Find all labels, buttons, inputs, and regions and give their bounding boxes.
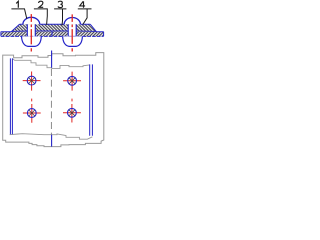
callout 3 label: [58, 1, 63, 7]
butt joint line, top strip: [51, 51, 53, 68]
inner break line, bottom (cover plate): [10, 134, 93, 140]
hole H1 centerlines: [23, 72, 41, 91]
cover plate left bevel: [11, 24, 19, 31]
callout 4 label: [80, 1, 85, 7]
centerline rivet R2: [71, 14, 73, 51]
butt joint line, bottom strip: [51, 135, 53, 147]
rivet R2 shank lines: [68, 24, 76, 36]
hole H4 centerlines: [63, 104, 81, 123]
butt gap between main plates: [51, 31, 53, 37]
callout 3 leader: [54, 9, 66, 25]
callout 2 leader: [34, 9, 47, 25]
main plate outline: [1, 32, 104, 37]
hole H3 cross mark: [29, 110, 35, 116]
cover plate right edge (double line): [90, 64, 93, 135]
hole H2 centerlines: [63, 72, 81, 91]
rivet R1 bottom head: [22, 36, 42, 46]
hole H1 cross mark: [29, 78, 35, 84]
hole H2 circle: [68, 76, 77, 85]
hole H2 cross mark: [69, 78, 75, 84]
rivet R2 top head: [64, 17, 80, 24]
rivet R2 shank (unsectioned): [68, 24, 76, 36]
column centerline dot, left: [31, 99, 33, 102]
callout 2 label: [39, 1, 44, 7]
cover plate hatched body: [11, 24, 96, 31]
hole H3 circle: [27, 109, 36, 118]
cover/main boundary line: [11, 30, 96, 33]
main plate bottom edge (dashed-looking): [1, 35, 104, 37]
callout 1 label: [16, 1, 18, 7]
main plates hatched body: [1, 32, 104, 37]
outer break boundary of main plates: [3, 53, 104, 147]
callout 4 leader: [78, 9, 92, 25]
rivet R1 shank lines: [27, 24, 35, 36]
hole H4 cross mark: [69, 110, 75, 116]
hole H3 centerlines: [23, 104, 41, 123]
hole H4 circle: [68, 108, 77, 117]
callout 1 leader: [11, 9, 26, 19]
inner break line, top (cover plate): [12, 59, 89, 69]
column centerline dot, right: [71, 99, 73, 102]
centerline rivet R1: [30, 14, 32, 51]
cover plate right bevel: [90, 24, 96, 31]
butt joint line hidden under cover (dashed): [50, 69, 52, 135]
cover plate left edge (double line): [10, 58, 12, 134]
rivet R1 shank (unsectioned): [27, 24, 35, 36]
cover plate top edge: [20, 23, 91, 25]
hole H1 circle: [27, 76, 36, 85]
rivet R1 top head: [23, 17, 40, 24]
rivet R2 bottom head: [63, 36, 83, 46]
